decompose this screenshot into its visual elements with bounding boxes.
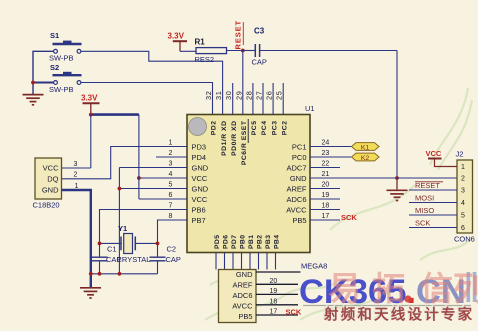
svg-text:列: 列 — [453, 270, 478, 307]
RESET overline — [242, 22, 244, 45]
svg-text:25: 25 — [275, 90, 284, 100]
junction: GND net — [118, 187, 122, 191]
svg-text:20: 20 — [270, 278, 278, 285]
svg-text:C18B20: C18B20 — [33, 201, 60, 210]
pin line AVCC — [256, 304, 298, 306]
capacitor C2 — [157, 243, 159, 257]
connector C18B20 (DS18B20) — [35, 158, 62, 199]
ground (right, near J2) — [387, 190, 408, 200]
svg-text:3: 3 — [169, 161, 173, 168]
svg-text:RESET: RESET — [415, 181, 440, 190]
wire: RESET node down to pin 29 — [242, 51, 244, 115]
wire: pin8 PB7 to crystal right — [158, 220, 188, 243]
wire: pin23 PC0 to K2 — [310, 156, 352, 158]
svg-text:U1: U1 — [305, 104, 315, 113]
svg-text:C2: C2 — [167, 245, 177, 254]
wire: pin1 PD3 to C18B20 DQ — [62, 147, 188, 179]
U1 bottom pin stubs — [215, 253, 217, 270]
svg-text:PD4: PD4 — [192, 153, 207, 162]
svg-text:R1: R1 — [195, 38, 206, 47]
svg-text:SCK: SCK — [415, 219, 430, 228]
svg-text:3: 3 — [461, 188, 465, 195]
svg-text:PD5: PD5 — [214, 235, 221, 249]
svg-text:ADC6: ADC6 — [286, 195, 306, 204]
svg-text:PD3: PD3 — [192, 142, 207, 151]
svg-text:RESET: RESET — [233, 20, 242, 50]
wire: 3.3V to R1 — [180, 50, 196, 52]
svg-text:2: 2 — [169, 150, 173, 157]
wire: pin21 GND to J2 pin2 — [310, 177, 457, 179]
svg-text:PD7: PD7 — [231, 235, 238, 249]
svg-text:PD1/R XD: PD1/R XD — [221, 120, 228, 155]
svg-text:8: 8 — [169, 213, 173, 220]
svg-text:GND: GND — [236, 270, 253, 279]
svg-text:PB5: PB5 — [292, 216, 306, 225]
svg-text:GND: GND — [42, 186, 59, 195]
watermark red dot — [404, 295, 411, 302]
wire: S1 to pin 31 net — [81, 51, 223, 114]
svg-text:17: 17 — [270, 309, 278, 316]
wire: S2 to pin 32 net — [81, 83, 213, 115]
svg-text:2: 2 — [461, 176, 465, 183]
wire: crystal right node — [135, 242, 157, 244]
svg-text:ADC6: ADC6 — [232, 291, 252, 300]
svg-text:22: 22 — [322, 161, 330, 168]
overline on RESET of PC6/RESET — [247, 119, 249, 143]
svg-text:VCC: VCC — [43, 164, 59, 173]
wire: crystal ground rail — [89, 273, 158, 275]
svg-text:19: 19 — [270, 288, 278, 295]
junction: XTAL1 node — [98, 242, 102, 246]
wire: S1 left lead to ground rail — [33, 51, 54, 94]
svg-text:PC6/R ESET: PC6/R ESET — [241, 120, 248, 165]
svg-text:3.3V: 3.3V — [81, 94, 98, 103]
svg-text:1: 1 — [169, 140, 173, 147]
resistor R1 — [196, 48, 227, 54]
svg-text:SW-PB: SW-PB — [49, 54, 73, 63]
svg-text:GND: GND — [290, 174, 307, 183]
svg-text:3.3V: 3.3V — [168, 32, 185, 41]
svg-text:21: 21 — [322, 171, 330, 178]
decorative green watermark squiggles — [205, 88, 472, 320]
svg-text:PB1: PB1 — [248, 235, 255, 249]
svg-text:32: 32 — [204, 90, 213, 100]
svg-text:MOSI: MOSI — [415, 194, 434, 203]
svg-text:27: 27 — [255, 90, 264, 100]
RESET overline (J2) — [415, 181, 443, 183]
svg-text:PC0: PC0 — [292, 153, 307, 162]
wire: pin4 VCC — [139, 177, 187, 179]
svg-text:1: 1 — [75, 183, 79, 190]
wire: pin17 PB5 stub — [310, 219, 340, 221]
U1 top pin stubs — [232, 83, 234, 115]
wire: pin19 ADC6 stub — [310, 198, 340, 200]
svg-text:C1: C1 — [107, 245, 117, 254]
wire: pin24 PC1 to K1 — [310, 146, 352, 148]
ground (top-left) — [23, 95, 44, 105]
svg-text:2: 2 — [74, 172, 78, 179]
wire: GND net vertical — [118, 168, 120, 274]
wire: VCC net vertical — [138, 115, 140, 199]
svg-text:CAP: CAP — [166, 255, 181, 264]
wire: pin22 ADC7 stub — [310, 167, 340, 169]
svg-text:K1: K1 — [361, 144, 370, 151]
wire: C3 to right vertical — [260, 50, 397, 52]
watermark underline — [303, 305, 471, 307]
svg-text:Y1: Y1 — [118, 224, 127, 233]
pin line AREF — [256, 283, 298, 285]
svg-text:29: 29 — [234, 90, 243, 100]
svg-text:PD6: PD6 — [223, 235, 230, 249]
svg-text:6: 6 — [169, 192, 173, 199]
svg-text:S1: S1 — [50, 31, 59, 40]
junction: S1/S2 ground rail — [31, 81, 35, 85]
wire: MISO to J2 pin5 — [409, 214, 457, 216]
svg-text:20: 20 — [322, 182, 330, 189]
port K2 — [352, 153, 380, 161]
svg-text:28: 28 — [244, 90, 253, 100]
svg-text:SCK: SCK — [341, 213, 357, 222]
svg-text:CAP: CAP — [252, 58, 267, 67]
junction: rail-gnd — [89, 272, 93, 276]
wire: 3.3V down to C18B20 VCC — [90, 115, 92, 168]
watermark salmon CJK overlay — [328, 270, 478, 307]
ground stem — [396, 178, 398, 190]
svg-text:CAP: CAP — [106, 255, 121, 264]
junction at GND row — [395, 176, 399, 180]
svg-text:PC5: PC5 — [251, 121, 258, 136]
svg-text:J2: J2 — [456, 150, 464, 159]
capacitor C3 — [243, 50, 256, 52]
svg-text:CRYSTAL: CRYSTAL — [117, 255, 151, 264]
svg-text:DQ: DQ — [47, 174, 58, 183]
svg-text:30: 30 — [224, 90, 233, 100]
svg-text:CON6: CON6 — [454, 235, 475, 244]
svg-text:31: 31 — [214, 90, 223, 100]
svg-text:AREF: AREF — [286, 184, 306, 193]
ground (bottom-left) — [80, 288, 101, 298]
svg-text:MEGA8: MEGA8 — [301, 262, 327, 271]
capacitor C1 — [99, 243, 101, 257]
wire: pin18 AVCC stub — [310, 209, 340, 211]
svg-text:PB7: PB7 — [192, 216, 206, 225]
svg-text:MISO: MISO — [415, 206, 434, 215]
wire: crystal left node — [100, 242, 122, 244]
svg-text:19: 19 — [322, 192, 330, 199]
lower connector box (duplicated chip edge) — [219, 270, 257, 323]
svg-text:5: 5 — [461, 213, 465, 220]
svg-text:26: 26 — [265, 90, 274, 100]
crystal Y1 — [120, 237, 122, 251]
svg-text:ADC7: ADC7 — [286, 163, 306, 172]
svg-text:6: 6 — [461, 225, 465, 232]
svg-text:RES2: RES2 — [195, 55, 215, 64]
svg-text:PB6: PB6 — [192, 205, 206, 214]
svg-text:18: 18 — [270, 299, 278, 306]
svg-text:S2: S2 — [50, 63, 59, 72]
svg-text:5: 5 — [169, 182, 173, 189]
junction: rail-C1 — [98, 272, 102, 276]
port K1 — [352, 143, 380, 151]
svg-text:信: 信 — [420, 270, 453, 307]
svg-text:VCC: VCC — [426, 149, 442, 158]
svg-text:GND: GND — [192, 184, 209, 193]
switch S2 (SW-PB) — [53, 75, 82, 84]
svg-text:4: 4 — [461, 200, 465, 207]
svg-text:3: 3 — [74, 161, 78, 168]
junction: VCC net — [137, 176, 141, 180]
wire: C18B20 pin3 VCC — [62, 167, 91, 169]
svg-text:射频和天线设计专家: 射频和天线设计专家 — [323, 306, 474, 324]
op IC U1 MEGA8 body — [187, 115, 310, 253]
watermark light-blue tail strokes — [467, 272, 471, 302]
junction: XTAL2 node — [156, 242, 160, 246]
svg-text:拓: 拓 — [372, 270, 405, 307]
svg-text:4: 4 — [169, 171, 173, 178]
svg-text:PC1: PC1 — [292, 142, 307, 151]
junction: 3.3V node — [89, 113, 93, 117]
wire: down to GND row — [396, 51, 398, 179]
svg-text:PB0: PB0 — [240, 235, 247, 249]
svg-text:PC3: PC3 — [271, 121, 278, 136]
svg-text:GND: GND — [192, 163, 209, 172]
svg-text:17: 17 — [322, 213, 330, 220]
svg-text:VCC: VCC — [192, 195, 208, 204]
connector J2 CON6 — [457, 160, 473, 233]
wire: C18B20 pin1 GND (thick) to ground — [62, 190, 91, 288]
svg-text:PB2: PB2 — [257, 235, 264, 249]
svg-text:PC2: PC2 — [281, 121, 288, 136]
svg-text:PC4: PC4 — [261, 121, 268, 136]
svg-text:VCC: VCC — [192, 174, 208, 183]
wire: MOSI to J2 pin4 — [409, 202, 457, 204]
svg-text:K2: K2 — [361, 155, 370, 162]
svg-text:24: 24 — [322, 140, 330, 147]
pin-1 indicator circle — [189, 118, 207, 136]
pin line PB5 — [256, 314, 298, 316]
svg-text:AVCC: AVCC — [232, 302, 253, 311]
svg-text:PB3: PB3 — [265, 235, 272, 249]
svg-text:AVCC: AVCC — [286, 205, 307, 214]
svg-text:PB4: PB4 — [274, 235, 281, 249]
svg-text:PB5: PB5 — [238, 312, 252, 321]
wire: SCK to J2 pin6 — [409, 227, 457, 229]
svg-text:PD2: PD2 — [211, 121, 218, 136]
junction: RESET node — [241, 49, 245, 53]
svg-text:PD0/R XD: PD0/R XD — [231, 121, 238, 156]
svg-text:7: 7 — [169, 203, 173, 210]
junction: rail-GND net — [118, 272, 122, 276]
svg-text:18: 18 — [322, 203, 330, 210]
svg-text:AREF: AREF — [232, 281, 252, 290]
svg-text:易: 易 — [328, 270, 361, 307]
svg-text:23: 23 — [322, 150, 330, 157]
wire: pin2 PD4 stub — [156, 156, 187, 158]
svg-text:1: 1 — [461, 164, 465, 171]
wire: S2 left lead (thick) — [33, 82, 54, 84]
pin line GND — [256, 271, 301, 273]
switch S1 (SW-PB) — [53, 44, 82, 53]
svg-text:C3: C3 — [254, 27, 265, 36]
wire: pin6 VCC — [139, 198, 187, 200]
svg-text:SW-PB: SW-PB — [49, 85, 73, 94]
wire: pin5 GND — [119, 188, 187, 190]
pin line ADC6 — [256, 293, 298, 295]
wire: pin7 PB6 to crystal left — [100, 210, 188, 244]
wire: RESET to J2 pin3 — [409, 189, 457, 191]
wire: pin20 AREF stub — [310, 188, 340, 190]
wire: 3.3V feed (thick) — [91, 113, 139, 116]
wire: pin3 GND — [119, 167, 187, 169]
wire: R1 to RESET node — [227, 50, 243, 52]
